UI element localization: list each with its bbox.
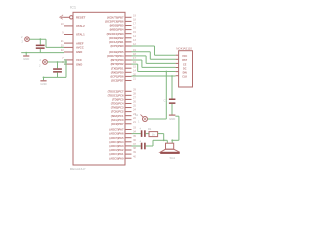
svg-text:(OC1B)PB2: (OC1B)PB2 <box>109 36 124 40</box>
svg-text:R1: R1 <box>148 127 152 131</box>
svg-text:(ADC7)PA7: (ADC7)PA7 <box>109 128 124 132</box>
svg-text:MEGA16-P: MEGA16-P <box>70 167 86 171</box>
svg-text:(OC2)PD7: (OC2)PD7 <box>111 122 124 126</box>
svg-text:VCC: VCC <box>182 55 187 58</box>
svg-text:(XCK/T0)PD4: (XCK/T0)PD4 <box>107 54 124 58</box>
svg-text:AVCC: AVCC <box>76 46 84 50</box>
svg-text:(TDO)PC4: (TDO)PC4 <box>111 102 124 106</box>
svg-text:(ADC5)PA5: (ADC5)PA5 <box>109 136 124 140</box>
svg-text:(ADC0)PA0: (ADC0)PA0 <box>109 156 124 160</box>
svg-text:(RXD)PD0: (RXD)PD0 <box>111 70 124 74</box>
svg-text:+: + <box>139 127 141 131</box>
svg-text:(ADC3)PA3: (ADC3)PA3 <box>109 144 124 148</box>
svg-text:(TXD)PD1: (TXD)PD1 <box>111 66 124 70</box>
svg-text:SG1: SG1 <box>170 156 176 160</box>
svg-text:(MOSI)PB5: (MOSI)PB5 <box>110 24 124 28</box>
svg-text:DC: DC <box>183 67 187 70</box>
svg-text:DIN: DIN <box>183 72 187 75</box>
svg-text:CLK: CLK <box>182 76 187 79</box>
svg-text:(INT1)PD3: (INT1)PD3 <box>111 58 124 62</box>
svg-text:(SS/OC1)PB3: (SS/OC1)PB3 <box>107 32 124 36</box>
svg-text:S1: S1 <box>135 113 139 117</box>
svg-text:(ADC6)PA6: (ADC6)PA6 <box>109 132 124 136</box>
svg-text:(OC2)PD7: (OC2)PD7 <box>111 79 124 83</box>
svg-text:XTAL1: XTAL1 <box>76 33 85 37</box>
svg-text:(ICP1)PD6: (ICP1)PD6 <box>111 75 124 79</box>
svg-text:(INT0)PD2: (INT0)PD2 <box>111 62 124 66</box>
svg-text:(MISO)PB4: (MISO)PB4 <box>110 28 124 32</box>
svg-text:(TDI)PC5: (TDI)PC5 <box>112 98 124 102</box>
svg-text:GND: GND <box>169 117 175 121</box>
svg-text:(TCK)PC2: (TCK)PC2 <box>111 110 124 114</box>
svg-text:CE: CE <box>183 63 187 66</box>
svg-text:(SCL)PC0: (SCL)PC0 <box>111 118 124 122</box>
svg-text:GND: GND <box>76 62 82 66</box>
svg-text:NOKIA5110: NOKIA5110 <box>176 47 192 51</box>
svg-text:(XCK/T0)PB7: (XCK/T0)PB7 <box>107 15 124 19</box>
svg-text:XTAL2: XTAL2 <box>76 24 85 28</box>
svg-text:C7: C7 <box>164 99 168 103</box>
svg-text:(ADC4)PA4: (ADC4)PA4 <box>109 140 124 144</box>
svg-text:GND: GND <box>40 82 46 86</box>
svg-text:+: + <box>139 139 141 143</box>
svg-text:RESET: RESET <box>76 16 86 20</box>
svg-text:(OC1A)PB1: (OC1A)PB1 <box>109 40 124 44</box>
svg-text:(ADC2)PA2: (ADC2)PA2 <box>109 148 124 152</box>
svg-text:(OC2/PC6)PB6: (OC2/PC6)PB6 <box>105 20 124 24</box>
svg-text:(TOSC1)PC6: (TOSC1)PC6 <box>108 93 124 97</box>
svg-text:IC1: IC1 <box>70 5 76 10</box>
svg-text:(SDA)PC1: (SDA)PC1 <box>111 114 124 118</box>
svg-text:(ICP1)PB0: (ICP1)PB0 <box>111 44 124 48</box>
svg-text:(TOSC2)PC7: (TOSC2)PC7 <box>108 89 124 93</box>
svg-text:(ADC1)PA1: (ADC1)PA1 <box>109 152 124 156</box>
svg-text:RST: RST <box>182 59 187 62</box>
svg-text:GND: GND <box>23 57 29 61</box>
svg-text:(OC1B)PD5: (OC1B)PD5 <box>109 50 124 54</box>
svg-text:(TMS)PC3: (TMS)PC3 <box>111 106 124 110</box>
svg-text:GND: GND <box>76 50 82 54</box>
